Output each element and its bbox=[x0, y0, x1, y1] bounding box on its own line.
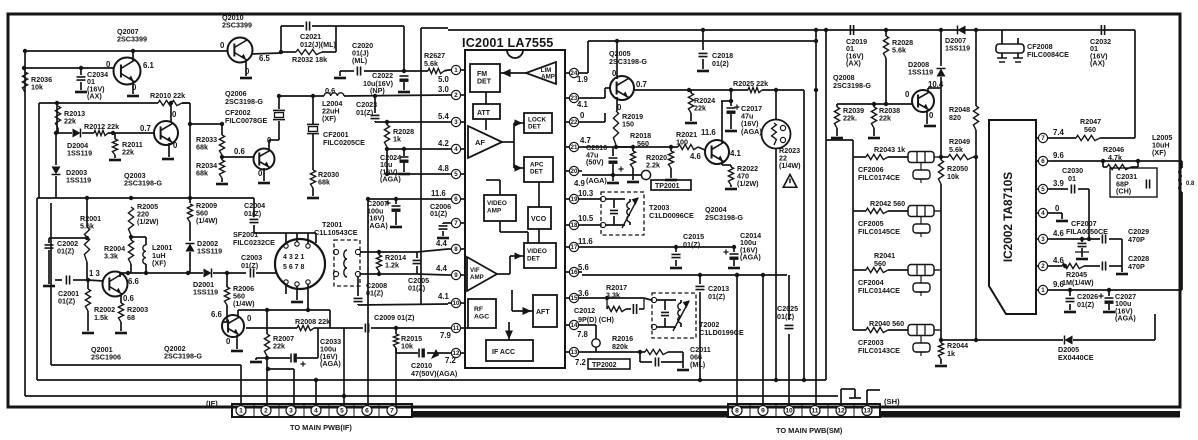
svg-text:(XF): (XF) bbox=[1152, 148, 1167, 157]
wire bus y396 bbox=[25, 395, 838, 397]
pin 6 IC2001 bbox=[451, 194, 460, 203]
capacitor C2011 bbox=[639, 352, 641, 362]
svg-text:7: 7 bbox=[454, 220, 458, 227]
svg-text:4.6: 4.6 bbox=[690, 152, 702, 161]
svg-text:6.5: 6.5 bbox=[259, 54, 271, 63]
svg-text:R2043 1k: R2043 1k bbox=[874, 145, 905, 154]
svg-text:10k: 10k bbox=[31, 83, 43, 92]
svg-text:01(Z): 01(Z) bbox=[683, 240, 701, 249]
connector pin 6 bbox=[362, 406, 372, 416]
wire pin6 drop bbox=[367, 199, 369, 406]
svg-text:470P: 470P bbox=[1128, 262, 1145, 271]
svg-text:DET: DET bbox=[530, 169, 543, 176]
svg-text:4.9: 4.9 bbox=[574, 179, 586, 188]
resistor R2038 bbox=[871, 107, 876, 128]
transformer T2001 secondary dashed box bbox=[334, 240, 360, 286]
connector pin 11 bbox=[810, 406, 820, 416]
svg-text:IC2001 LA7555: IC2001 LA7555 bbox=[462, 36, 554, 50]
capacitor C2022 bbox=[400, 75, 409, 77]
wire Q2001 base bbox=[88, 280, 103, 281]
svg-text:01(Z): 01(Z) bbox=[241, 261, 259, 270]
svg-text:560: 560 bbox=[1084, 125, 1096, 134]
svg-text:(ML): (ML) bbox=[690, 360, 706, 369]
svg-text:AGC: AGC bbox=[474, 314, 489, 321]
svg-text:TP2002: TP2002 bbox=[592, 362, 617, 369]
wire pin17 row bbox=[582, 246, 734, 248]
pin 9 IC2001 bbox=[451, 270, 460, 279]
pin 3 IC2002 bbox=[1038, 234, 1047, 243]
wire pin3 row bbox=[375, 121, 448, 123]
svg-text:1SS119: 1SS119 bbox=[197, 246, 222, 255]
resistor R2030 bbox=[310, 170, 315, 188]
pin 13 IC2001 bbox=[569, 347, 578, 356]
resistor R2007 bbox=[266, 310, 268, 334]
diode D2002 bbox=[186, 244, 195, 252]
wire box Q2003 top y103 bbox=[39, 102, 158, 104]
svg-text:47(50V)(AGA): 47(50V)(AGA) bbox=[411, 369, 458, 378]
pin 8 IC2001 bbox=[451, 244, 460, 253]
capacitor C2024 bbox=[400, 156, 409, 158]
ground Q2007 emitter bbox=[132, 81, 134, 94]
resistor R2011 bbox=[114, 133, 116, 139]
svg-text:68: 68 bbox=[127, 313, 135, 322]
svg-text:2SC3198-G: 2SC3198-G bbox=[609, 57, 647, 66]
svg-text:10.3: 10.3 bbox=[578, 189, 594, 198]
block VIF AMP bbox=[467, 257, 497, 291]
T2001 pin leads bottom bbox=[285, 284, 287, 294]
pin 2 IC2001 bbox=[451, 90, 460, 99]
svg-text:1.2k: 1.2k bbox=[385, 261, 399, 270]
svg-text:7: 7 bbox=[390, 408, 394, 415]
T2002 coil bbox=[678, 303, 681, 323]
svg-text:01(Z): 01(Z) bbox=[244, 209, 262, 218]
svg-text:(IF): (IF) bbox=[206, 399, 218, 408]
resistor R2003 bbox=[120, 295, 122, 303]
capacitor C2026 bbox=[1069, 290, 1071, 296]
svg-text:DET: DET bbox=[528, 124, 541, 131]
svg-text:(AGA): (AGA) bbox=[741, 127, 762, 136]
pin 22 IC2001 bbox=[569, 117, 578, 126]
svg-text:FILC0145CE: FILC0145CE bbox=[858, 227, 900, 236]
wire Q2002 collector bbox=[237, 310, 239, 317]
wire top-left bus y51 bbox=[25, 50, 228, 52]
svg-text:(AGA): (AGA) bbox=[380, 175, 401, 184]
svg-text:(XF): (XF) bbox=[322, 114, 337, 123]
wire pin4 row bbox=[387, 148, 448, 150]
svg-text:(1/2W): (1/2W) bbox=[137, 217, 159, 226]
svg-text:6.6: 6.6 bbox=[211, 310, 223, 319]
wire Q2001 collector bbox=[119, 273, 121, 277]
svg-text:10.5: 10.5 bbox=[578, 214, 594, 223]
resistor R2050 bbox=[940, 77, 942, 157]
svg-text:(AGA): (AGA) bbox=[367, 221, 388, 230]
svg-text:20: 20 bbox=[571, 168, 578, 175]
wire pin2 row bbox=[1052, 265, 1062, 267]
svg-text:5.6: 5.6 bbox=[578, 263, 590, 272]
wire T2001 sec bottom bbox=[361, 273, 379, 275]
resistor R2048 bbox=[975, 30, 977, 106]
resistor R2020 bbox=[668, 151, 673, 168]
svg-text:4.6: 4.6 bbox=[1053, 229, 1065, 238]
wire T2001 top bbox=[254, 232, 316, 234]
svg-text:4.4: 4.4 bbox=[436, 239, 448, 248]
svg-text:(AGA): (AGA) bbox=[586, 176, 607, 185]
resistor R2627 bbox=[428, 68, 444, 73]
svg-text:AMP: AMP bbox=[470, 274, 484, 281]
wire x56 vertical bbox=[56, 103, 58, 133]
svg-text:3: 3 bbox=[1041, 236, 1045, 243]
pin 4 IC2001 bbox=[451, 144, 460, 153]
svg-text:4.2: 4.2 bbox=[438, 139, 450, 148]
svg-text:0: 0 bbox=[173, 141, 178, 150]
wire pin5 row bbox=[387, 173, 448, 175]
svg-text:(AGA): (AGA) bbox=[1115, 314, 1136, 323]
svg-text:(XF): (XF) bbox=[152, 259, 167, 268]
capacitor C2002 bbox=[49, 237, 87, 239]
svg-text:22k: 22k bbox=[694, 104, 706, 113]
capacitor C2008 bbox=[357, 277, 359, 296]
connector pin 13 bbox=[862, 406, 872, 416]
svg-text:0: 0 bbox=[929, 111, 934, 120]
svg-text:68k: 68k bbox=[318, 178, 330, 187]
connector pin 9 bbox=[758, 406, 768, 416]
svg-text:1: 1 bbox=[454, 67, 458, 74]
svg-text:(SH): (SH) bbox=[884, 397, 900, 406]
svg-text:22k: 22k bbox=[64, 117, 76, 126]
resistor R2049 bbox=[948, 154, 973, 159]
svg-text:LOCK: LOCK bbox=[528, 117, 546, 124]
svg-text:0: 0 bbox=[258, 169, 263, 178]
svg-text:5.6k: 5.6k bbox=[892, 46, 906, 55]
connector pin 1 bbox=[236, 406, 246, 416]
svg-text:01(Z): 01(Z) bbox=[1077, 300, 1095, 309]
wire pin22 bbox=[582, 121, 605, 123]
resistor R2013 bbox=[55, 106, 60, 128]
wire Q2002 base bbox=[226, 313, 228, 322]
T2003 tuning arrow bbox=[622, 198, 638, 228]
svg-text:4: 4 bbox=[314, 408, 318, 415]
svg-text:22k.: 22k. bbox=[843, 114, 857, 123]
wire Q2004 emitter bbox=[721, 161, 723, 165]
svg-text:01(Z): 01(Z) bbox=[708, 292, 726, 301]
ground R2007 node bbox=[256, 357, 267, 359]
svg-text:2SC3198-G: 2SC3198-G bbox=[124, 179, 162, 188]
capacitor C2033 bbox=[267, 357, 290, 359]
pin 3 IC2001 bbox=[451, 117, 460, 126]
svg-text:5 6 7 8: 5 6 7 8 bbox=[283, 264, 305, 271]
capacitor C2007 bbox=[395, 199, 397, 204]
svg-text:(1/2W): (1/2W) bbox=[737, 179, 759, 188]
capacitor C2001 bbox=[55, 279, 62, 281]
wire Q2005 collector bbox=[616, 41, 618, 79]
transistor Q2001 bbox=[103, 272, 128, 297]
svg-text:01(2): 01(2) bbox=[712, 59, 729, 68]
svg-text:APC: APC bbox=[530, 162, 544, 169]
diode D2008 bbox=[937, 69, 946, 77]
svg-text:1k: 1k bbox=[947, 349, 955, 358]
wire bus y365 bbox=[51, 364, 241, 366]
svg-text:4.7k: 4.7k bbox=[1108, 153, 1122, 162]
svg-text:10: 10 bbox=[785, 408, 793, 415]
wire vertical x190 bbox=[189, 103, 191, 203]
wire pin18 to T2003 bbox=[582, 224, 600, 226]
svg-text:2SC3399: 2SC3399 bbox=[222, 21, 252, 30]
resistor R2015 bbox=[395, 328, 397, 334]
svg-text:68k: 68k bbox=[196, 143, 208, 152]
capacitor C2023 bbox=[374, 96, 376, 113]
svg-text:9: 9 bbox=[761, 408, 765, 415]
svg-text:01(Z): 01(Z) bbox=[57, 247, 75, 256]
svg-text:AMP: AMP bbox=[541, 74, 555, 81]
pin 17 IC2001 bbox=[569, 242, 578, 251]
capacitor C2006 bbox=[443, 222, 448, 224]
T2003 terminals bbox=[600, 196, 605, 201]
svg-text:14: 14 bbox=[571, 322, 578, 329]
wire pin2 drop bbox=[266, 358, 268, 406]
svg-text:68k: 68k bbox=[196, 169, 208, 178]
svg-text:5.6k: 5.6k bbox=[949, 145, 963, 154]
pin 24 IC2001 bbox=[569, 68, 578, 77]
svg-text:4.4: 4.4 bbox=[436, 264, 448, 273]
svg-text:FILC0084CE: FILC0084CE bbox=[1027, 50, 1069, 59]
svg-text:TO MAIN PWB(IF): TO MAIN PWB(IF) bbox=[290, 423, 352, 432]
wire pin4 stub bbox=[1052, 212, 1062, 214]
wire x804 vertical bbox=[803, 90, 805, 380]
svg-text:(AGA): (AGA) bbox=[320, 359, 341, 368]
wire mid row y198 bbox=[37, 197, 254, 199]
svg-text:(1/4W): (1/4W) bbox=[779, 161, 801, 170]
svg-text:0: 0 bbox=[106, 60, 111, 69]
resistor R2045 bbox=[1062, 263, 1084, 268]
wire Q2003 collector bbox=[170, 103, 172, 122]
wire T2001 sec top bbox=[361, 251, 379, 253]
wire IC internal vif bbox=[497, 273, 510, 275]
wire left vertical x25 bbox=[24, 51, 26, 396]
svg-text:DET: DET bbox=[477, 79, 492, 86]
capacitor C2005 bbox=[416, 252, 418, 258]
transistor Q2004 bbox=[705, 140, 729, 164]
svg-text:1 3: 1 3 bbox=[89, 269, 101, 278]
svg-text:5: 5 bbox=[454, 171, 458, 178]
resistor R2023 circle bbox=[762, 120, 791, 149]
wire x976 down bbox=[975, 157, 977, 340]
capacitor C2020 bbox=[340, 70, 354, 72]
svg-text:1.5k: 1.5k bbox=[94, 313, 108, 322]
pin 19 IC2001 bbox=[569, 194, 578, 203]
block FM DET bbox=[470, 64, 500, 92]
capacitor C2032 bbox=[1101, 25, 1104, 35]
T2001 pin terminals bbox=[284, 244, 288, 248]
svg-text:2SC3198-G: 2SC3198-G bbox=[225, 97, 263, 106]
T2001 secondary coil bbox=[344, 250, 347, 277]
wire R2009 down bbox=[189, 222, 191, 241]
capacitor C2014 bbox=[733, 247, 735, 252]
svg-text:2SC1906: 2SC1906 bbox=[91, 353, 121, 362]
pin 1 IC2001 bbox=[451, 65, 460, 74]
connector housing left bbox=[232, 404, 412, 417]
wire Q2008 collector bbox=[927, 88, 929, 92]
resistor R2008 bbox=[297, 325, 314, 330]
svg-text:FILC0144CE: FILC0144CE bbox=[858, 286, 900, 295]
wire to pin9 bbox=[379, 273, 417, 275]
block AFT bbox=[533, 295, 557, 327]
wire x826 vertical bbox=[825, 30, 827, 380]
wire collector row y273 bbox=[120, 272, 203, 274]
wire IC internal 1 bbox=[485, 92, 487, 104]
transistor Q2003 bbox=[154, 121, 178, 145]
svg-text:11.6: 11.6 bbox=[578, 237, 593, 246]
svg-text:4: 4 bbox=[1041, 210, 1045, 217]
wire top bus y30 bbox=[448, 29, 1135, 31]
block VCO bbox=[528, 207, 551, 229]
capacitor C2034 bbox=[80, 68, 82, 75]
wire pin5 path bbox=[1088, 189, 1090, 239]
svg-text:9.6: 9.6 bbox=[1053, 151, 1065, 160]
svg-text:820k: 820k bbox=[612, 342, 628, 351]
resistor R2039 bbox=[834, 107, 839, 128]
wire x1135 down bbox=[1134, 30, 1136, 138]
svg-text:7.8: 7.8 bbox=[577, 330, 589, 339]
connector pin 7 bbox=[387, 406, 397, 416]
resistor R2028 bbox=[885, 30, 887, 36]
svg-text:2SC3399: 2SC3399 bbox=[117, 35, 147, 44]
resistor R2022 bbox=[728, 167, 733, 185]
capacitor C2017 bbox=[730, 90, 732, 101]
wire pin8 drop bbox=[736, 275, 738, 405]
inductor L2004 bbox=[324, 93, 344, 96]
resistor R2034 bbox=[221, 155, 223, 160]
svg-text:2: 2 bbox=[1041, 263, 1045, 270]
wire Q2008 emitter down bbox=[926, 110, 928, 124]
wire pin15-T2002 bbox=[644, 298, 651, 300]
pin 11 IC2001 bbox=[451, 323, 460, 332]
svg-text:5.6k: 5.6k bbox=[80, 221, 94, 230]
wire row 20 bbox=[582, 174, 641, 176]
resistor R2044 bbox=[938, 343, 943, 359]
resistor R2025 bbox=[689, 89, 748, 91]
svg-text:VIF: VIF bbox=[470, 267, 480, 274]
transistor Q2005 bbox=[610, 76, 634, 100]
wire CF2001 down bbox=[312, 134, 314, 170]
svg-text:16: 16 bbox=[571, 269, 578, 276]
pin 12 IC2001 bbox=[451, 348, 460, 357]
wire Q2005 emitter bbox=[616, 97, 618, 111]
wire pin12 drop bbox=[840, 389, 842, 405]
svg-text:IC2002 TA8710S: IC2002 TA8710S bbox=[1001, 172, 1015, 262]
svg-text:R2025 22k: R2025 22k bbox=[733, 79, 768, 88]
svg-text:22k: 22k bbox=[879, 114, 891, 123]
capacitor C2021 bbox=[280, 26, 282, 53]
resistor R2009 bbox=[187, 204, 192, 222]
wire pin15 row bbox=[582, 297, 607, 299]
svg-text:ATT: ATT bbox=[477, 110, 491, 117]
resistor R2010 bbox=[158, 100, 182, 105]
svg-text:3.3k: 3.3k bbox=[104, 251, 118, 260]
pin 5 IC2001 bbox=[451, 169, 460, 178]
wire IC internal vco bbox=[538, 229, 540, 243]
T2003 capacitor bbox=[613, 199, 615, 208]
svg-text:VCO: VCO bbox=[531, 216, 547, 223]
connector pin 10 bbox=[784, 406, 794, 416]
svg-text:R2040 560: R2040 560 bbox=[869, 319, 904, 328]
pin 15 IC2001 bbox=[569, 293, 578, 302]
svg-text:0: 0 bbox=[905, 90, 910, 99]
svg-text:FM: FM bbox=[477, 71, 487, 78]
svg-text:IF ACC: IF ACC bbox=[492, 349, 515, 356]
svg-text:6.6: 6.6 bbox=[128, 277, 140, 286]
wire Q2004 base row bbox=[616, 146, 678, 148]
capacitor C2016 bbox=[612, 147, 614, 156]
wire left vertical x39 bbox=[38, 103, 40, 198]
svg-text:0.6: 0.6 bbox=[123, 294, 135, 303]
ground Q2002 emitter bbox=[236, 335, 238, 349]
resistor R2006 bbox=[226, 273, 228, 287]
resistor R2019 bbox=[613, 111, 618, 145]
svg-text:6: 6 bbox=[454, 196, 458, 203]
svg-text:4 3 2 1: 4 3 2 1 bbox=[283, 254, 305, 261]
block VIDEO DET bbox=[524, 243, 556, 268]
capacitor C2031 sym bbox=[1146, 180, 1149, 189]
svg-text:820: 820 bbox=[949, 113, 961, 122]
wire bus y41 bbox=[588, 40, 816, 42]
wire pin10 row bbox=[358, 304, 448, 305]
svg-text:0.6: 0.6 bbox=[325, 86, 335, 95]
svg-text:C2009 01(Z): C2009 01(Z) bbox=[374, 313, 415, 322]
svg-text:11.6: 11.6 bbox=[701, 128, 716, 137]
T2002 terminals bbox=[651, 297, 656, 302]
svg-text:AFT: AFT bbox=[536, 309, 550, 316]
svg-text:0.7: 0.7 bbox=[140, 124, 151, 133]
capacitor C2019 bbox=[850, 25, 853, 35]
wire IC internal apc bbox=[513, 142, 515, 168]
svg-text:0: 0 bbox=[247, 314, 252, 323]
diode D2004 bbox=[73, 129, 81, 138]
wire Q2010 collector to C2021 node bbox=[251, 53, 281, 54]
diode D2005 bbox=[1065, 336, 1073, 345]
wire IC internal rfagc bbox=[465, 327, 468, 329]
svg-text:1SS119: 1SS119 bbox=[66, 175, 91, 184]
resistor R2004 bbox=[128, 240, 133, 264]
svg-text:RF: RF bbox=[474, 306, 483, 313]
svg-text:AMP: AMP bbox=[487, 208, 502, 215]
wire pin16 row bbox=[582, 274, 787, 276]
T2003 coil bbox=[627, 202, 630, 222]
wire pin6 row bbox=[368, 198, 448, 200]
resistor R2005 bbox=[128, 207, 133, 235]
svg-text:1: 1 bbox=[239, 408, 243, 415]
ceramic filter CF2008 bbox=[996, 44, 1024, 53]
svg-text:2SC3198-G: 2SC3198-G bbox=[833, 81, 871, 90]
resistor R2024 bbox=[688, 93, 693, 113]
connector pin 2 bbox=[261, 406, 271, 416]
resistor R2014 bbox=[376, 255, 381, 271]
svg-text:R2010 22k: R2010 22k bbox=[150, 91, 185, 100]
svg-text:(50V): (50V) bbox=[586, 158, 604, 167]
svg-text:C1LD0199CE: C1LD0199CE bbox=[699, 328, 744, 337]
diode D2003 bbox=[52, 167, 61, 175]
connector pin 5 bbox=[337, 406, 347, 416]
svg-text:C1L10543CE: C1L10543CE bbox=[314, 228, 358, 237]
connector bar middle bbox=[412, 411, 728, 418]
IC2001 outline box bbox=[465, 50, 565, 368]
wire base row y133 bbox=[56, 132, 72, 134]
svg-text:(NP): (NP) bbox=[370, 86, 385, 95]
block LOCK DET bbox=[524, 113, 552, 133]
pin 18 IC2001 bbox=[569, 220, 578, 229]
svg-text:7: 7 bbox=[1041, 135, 1045, 142]
wire left vertical x37 bbox=[36, 198, 38, 380]
diode D2007 bbox=[958, 26, 966, 35]
